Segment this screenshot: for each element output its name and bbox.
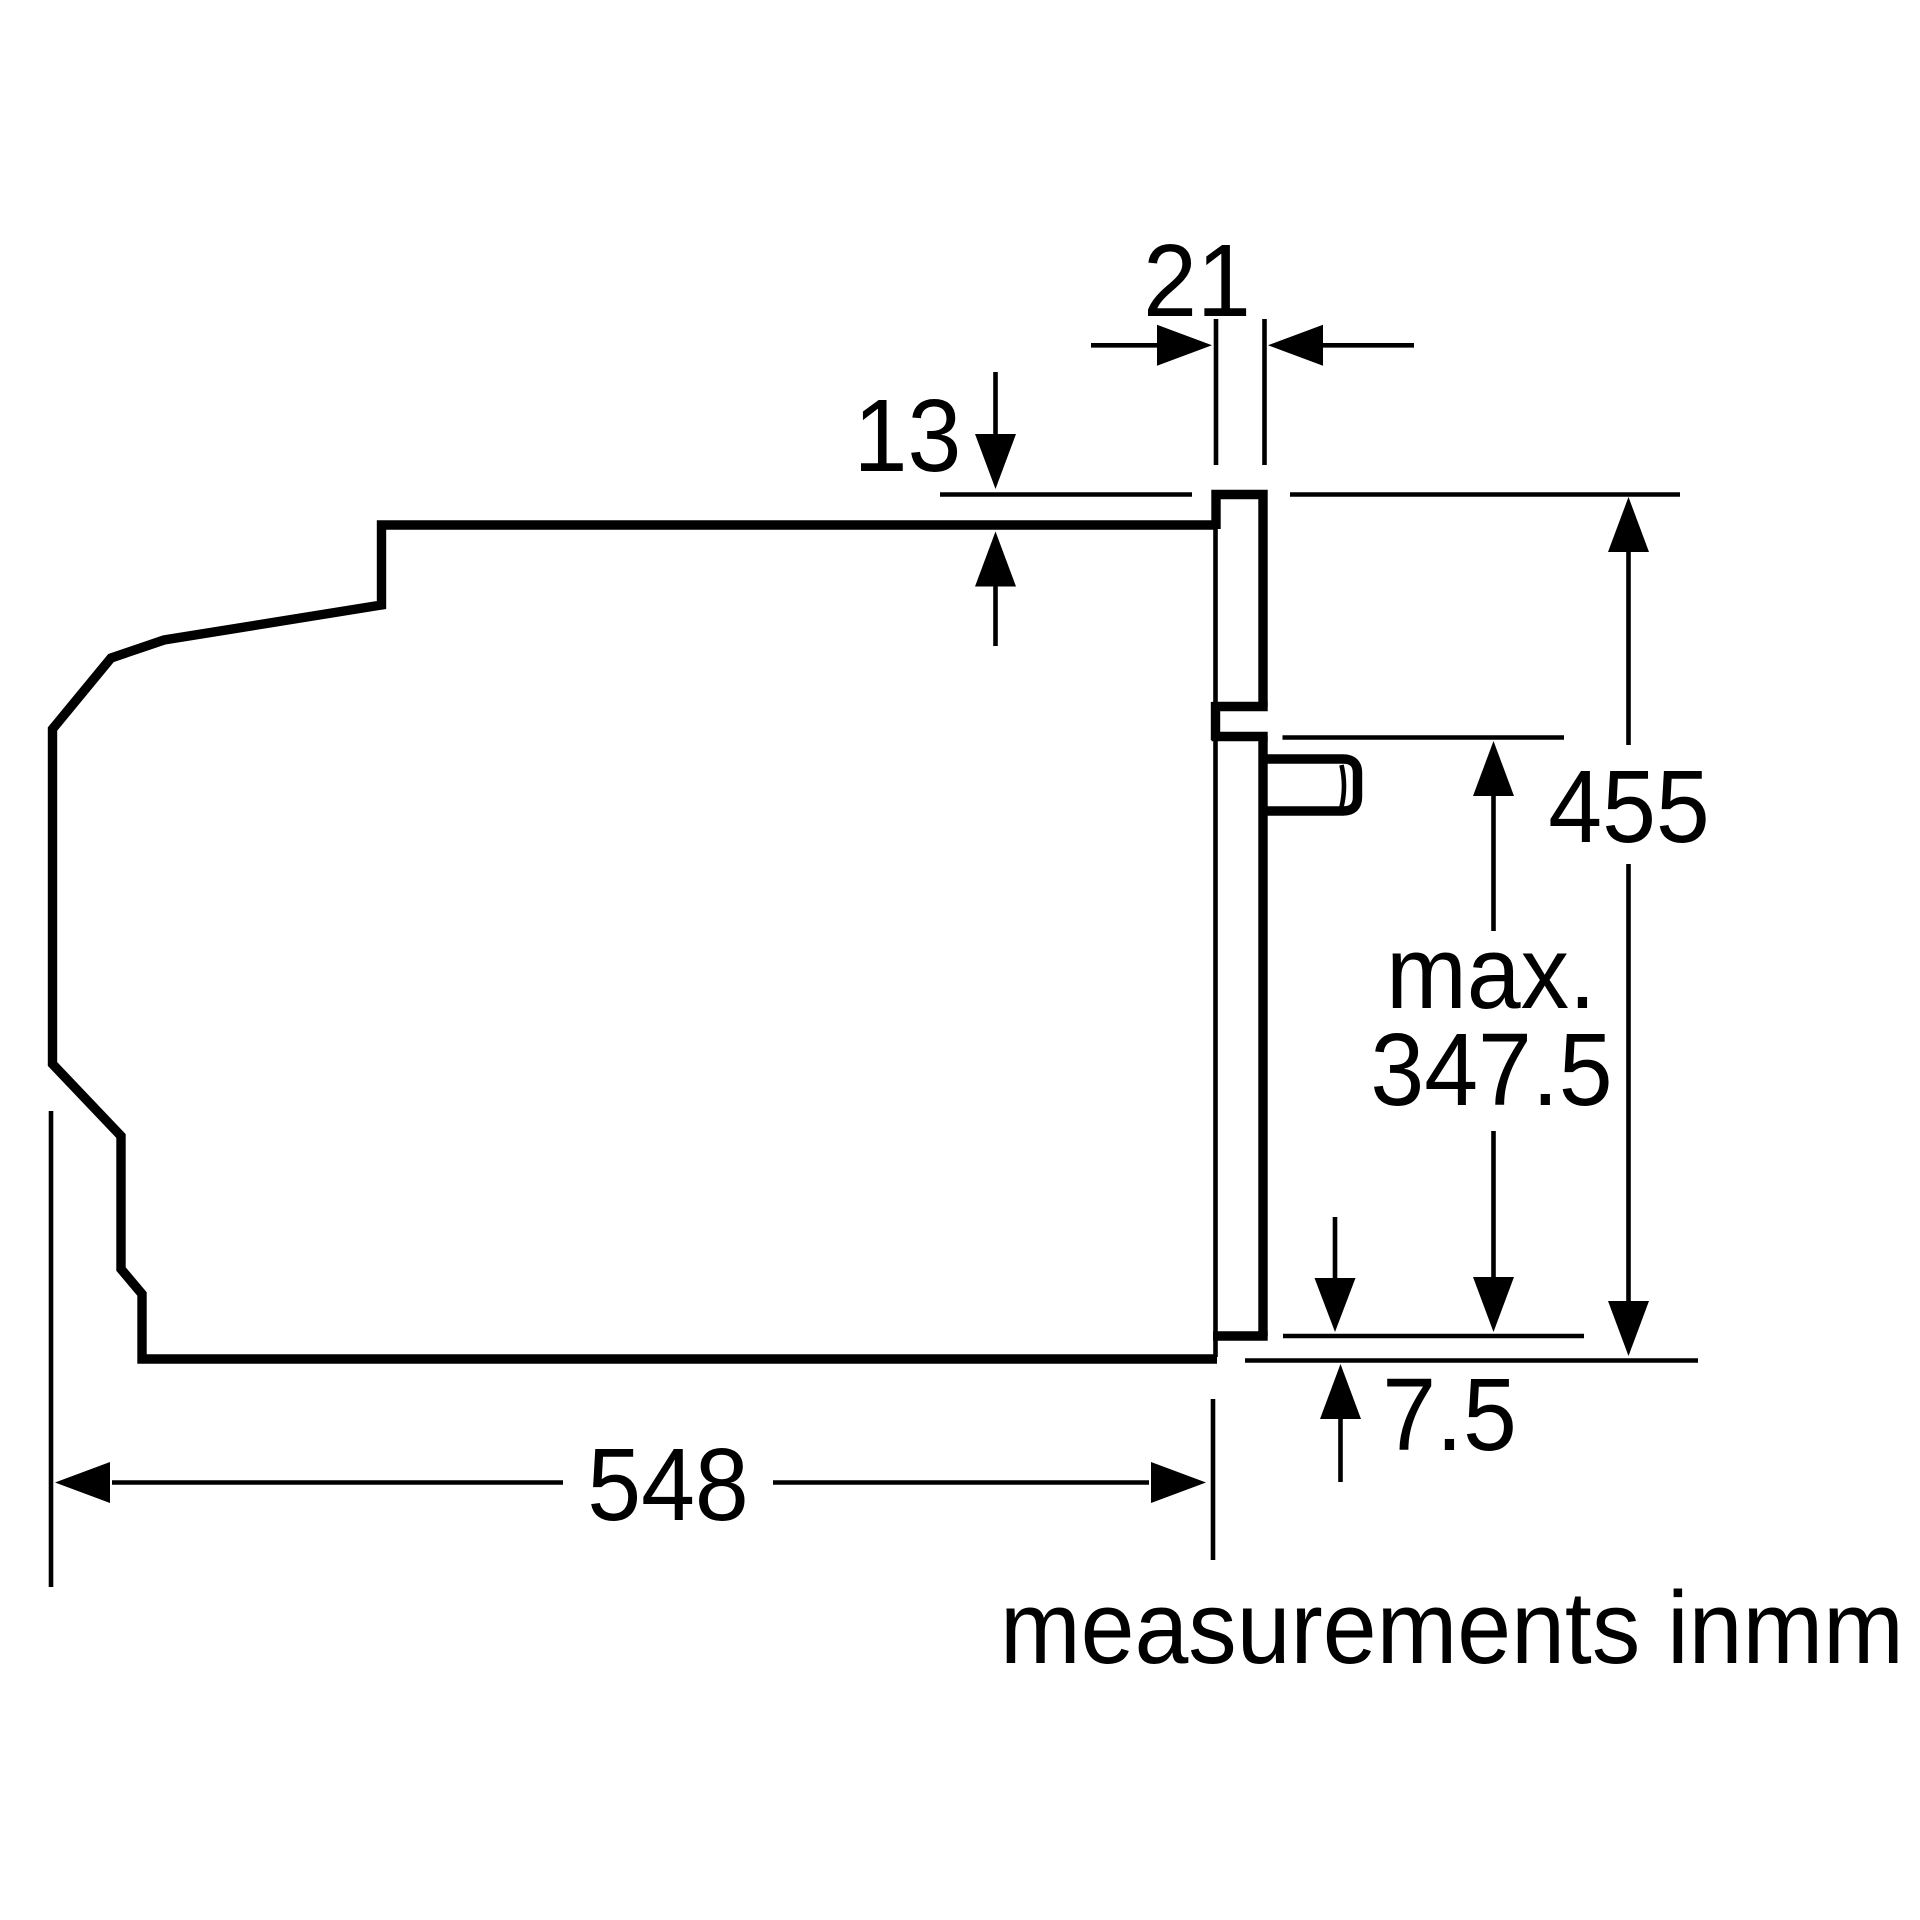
svg-text:455: 455: [1548, 750, 1710, 864]
svg-text:7.5: 7.5: [1382, 1358, 1517, 1472]
svg-text:21: 21: [1143, 224, 1251, 338]
svg-text:measurements inmm: measurements inmm: [1000, 1571, 1904, 1685]
svg-text:13: 13: [854, 379, 962, 493]
svg-text:548: 548: [587, 1428, 749, 1542]
svg-text:347.5: 347.5: [1370, 1013, 1612, 1127]
